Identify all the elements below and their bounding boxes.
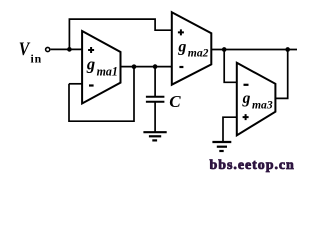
wire: gma2 output node to right edge (Vout)	[211, 49, 297, 51]
wire: feedforward from Vin node to gma2 + input	[69, 19, 171, 49]
svg-text:ma1: ma1	[97, 64, 118, 79]
ground at gma3 + input	[212, 142, 231, 151]
input terminal circle	[46, 47, 50, 51]
wire: gma1 output to gma2 - input	[121, 66, 172, 68]
svg-text:bbs.eetop.cn: bbs.eetop.cn	[210, 158, 295, 173]
junction: node at gma1 output (feedback tap)	[132, 64, 137, 69]
junction: gma2 output node	[222, 47, 227, 52]
wire: gma3 output up to output node	[275, 50, 287, 99]
wire: capacitor bottom plate to ground	[154, 102, 156, 132]
gma3 - pin label	[244, 84, 249, 86]
gma1 body	[82, 31, 120, 104]
junction: output node right	[285, 47, 290, 52]
gma2 body	[172, 12, 212, 85]
wire: output node down to gma3 - input	[224, 50, 237, 83]
svg-text:g: g	[177, 39, 186, 56]
wire: gma3 + input to ground	[223, 117, 237, 142]
op-amp gma2 (OTA)	[172, 12, 212, 85]
svg-text:C: C	[169, 92, 181, 111]
gma3 body	[237, 63, 276, 136]
junction: Vin node	[67, 47, 72, 52]
gma2 + pin label	[178, 29, 184, 35]
junction: node at gma1 output (capacitor tap)	[153, 64, 158, 69]
gma1 - pin label	[89, 84, 94, 86]
label Vin	[19, 39, 42, 65]
svg-text:ma3: ma3	[252, 97, 273, 111]
capacitor C	[146, 97, 165, 102]
svg-text:in: in	[31, 52, 43, 66]
wire: Vin terminal to gma1 + input	[51, 48, 83, 50]
gma1 + pin label	[88, 47, 94, 53]
wire: gma1 - input stub	[69, 83, 82, 85]
wire: feedback loop gma1 output to gma1 - input	[69, 67, 134, 122]
svg-text:V: V	[19, 39, 31, 60]
op-amp gma3 (OTA)	[237, 63, 276, 136]
wire: node to capacitor top plate	[154, 67, 156, 97]
svg-text:g: g	[242, 90, 251, 107]
svg-text:ma2: ma2	[188, 46, 209, 60]
gma2 - pin label	[179, 66, 183, 68]
op-amp gma1 (OTA)	[82, 31, 120, 104]
gma3 + pin label	[243, 114, 249, 120]
ground under capacitor	[143, 132, 166, 140]
svg-text:g: g	[86, 54, 95, 73]
